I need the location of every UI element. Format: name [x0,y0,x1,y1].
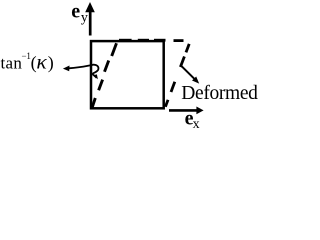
svg-text:): ) [48,52,54,73]
leader arrow to Deformed label [181,65,200,83]
deformed parallelogram top edge (dashed) [119,39,184,42]
svg-text:tan: tan [1,53,23,72]
square (undeformed) [91,41,164,108]
svg-text:κ: κ [36,51,47,73]
deformed parallelogram right edge (dashed) [165,44,189,107]
svg-text:e: e [71,0,80,22]
label e_y [71,0,88,25]
svg-text:−1: −1 [22,51,31,61]
label tan^-1(kappa) [1,51,54,74]
svg-text:y: y [81,10,88,25]
label e_x [185,108,200,132]
svg-text:x: x [193,117,200,129]
y-axis arrow [85,2,95,36]
x-axis arrow [169,107,204,115]
svg-text:Deformed: Deformed [181,83,258,104]
angle leader arrow with curl [63,65,99,80]
deformed parallelogram left edge (dashed) [92,43,116,107]
